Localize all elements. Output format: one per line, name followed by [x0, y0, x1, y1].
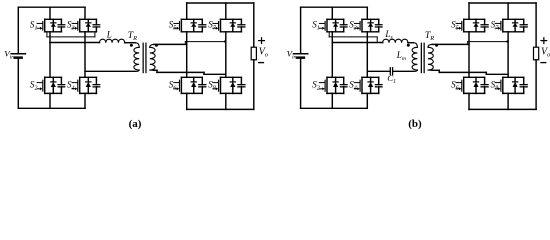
- svg-text:S1: S1: [312, 20, 320, 32]
- svg-text:Lm: Lm: [396, 50, 406, 62]
- svg-text:S3: S3: [67, 20, 75, 32]
- svg-text:L: L: [106, 29, 112, 39]
- svg-text:TR: TR: [128, 30, 137, 42]
- svg-text:TR: TR: [425, 30, 434, 42]
- svg-text:S3: S3: [349, 20, 357, 32]
- svg-text:S2: S2: [30, 79, 38, 91]
- svg-text:S8: S8: [208, 79, 217, 91]
- svg-text:S7: S7: [491, 20, 500, 32]
- svg-text:(a): (a): [129, 118, 142, 130]
- svg-text:S7: S7: [208, 20, 217, 32]
- svg-text:Vin: Vin: [287, 49, 297, 61]
- svg-text:Vo: Vo: [259, 47, 268, 59]
- svg-text:S6: S6: [451, 79, 460, 91]
- svg-text:C1: C1: [387, 73, 396, 85]
- svg-text:S4: S4: [67, 79, 75, 91]
- svg-text:S1: S1: [30, 20, 38, 32]
- svg-text:S6: S6: [169, 79, 178, 91]
- svg-text:S8: S8: [491, 79, 500, 91]
- svg-text:S5: S5: [169, 20, 177, 32]
- svg-text:S2: S2: [312, 79, 320, 91]
- svg-text:(b): (b): [408, 118, 422, 130]
- svg-text:Vo: Vo: [541, 47, 550, 59]
- svg-text:Vin: Vin: [4, 49, 14, 61]
- svg-text:S5: S5: [451, 20, 459, 32]
- svg-text:S4: S4: [349, 79, 357, 91]
